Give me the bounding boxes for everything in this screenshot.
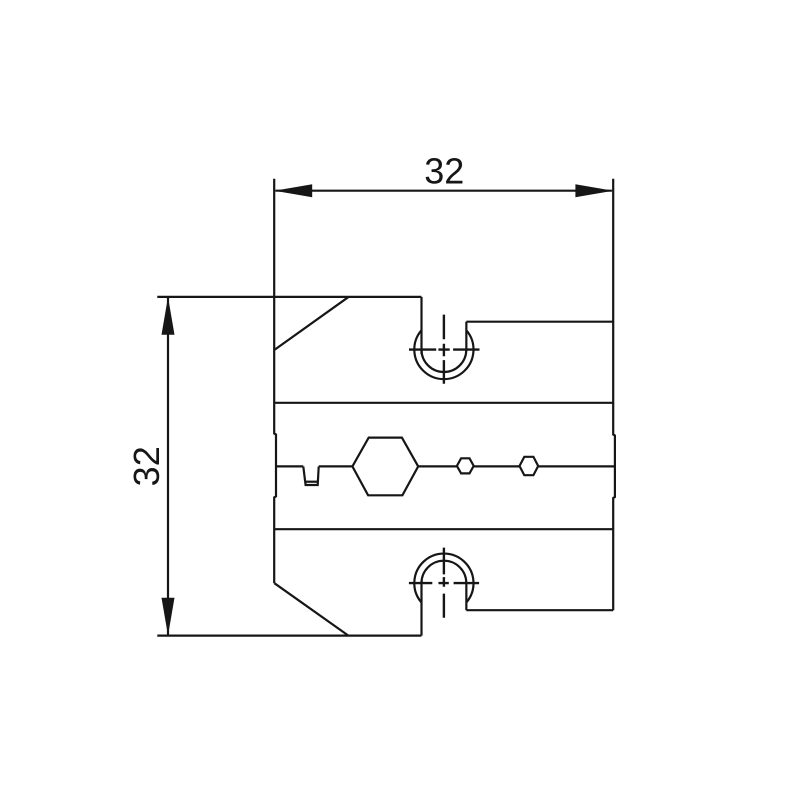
top hole centerline vertical: [443, 315, 445, 384]
svg-text:32: 32: [126, 446, 167, 486]
small hexagon cavity 2: [520, 457, 539, 475]
top slot right wall: [465, 322, 467, 350]
arrowhead top of left dimension: [162, 297, 175, 335]
arrowhead right of top dimension: [575, 184, 613, 197]
top hole outer arc r29.6: [414, 330, 473, 379]
bottom hole outer arc r29.6: [414, 554, 473, 603]
top hole centerline horizontal: [409, 348, 480, 350]
crimp notch seam line: [306, 481, 317, 483]
right extension + part right edge with relief jog: [613, 179, 615, 611]
part top-right edge: [466, 321, 613, 323]
chamfer diagonal top-left: [275, 297, 348, 349]
arrowhead left of top dimension: [274, 184, 312, 197]
bottom slot right wall: [465, 583, 467, 611]
profile center axis segment 3: [418, 465, 457, 467]
part bottom-right edge: [466, 609, 613, 611]
bottom slot left wall: [420, 581, 422, 636]
extension line / part top edge: [157, 296, 421, 298]
bottom hole inner semicircle r22.4: [422, 561, 467, 583]
bottom hole centerline vertical: [443, 548, 445, 618]
profile center axis segment 4: [474, 465, 520, 467]
groove top line of middle band: [274, 402, 613, 404]
large hexagon cavity: [352, 438, 418, 496]
dimension line horizontal 32 (top): [276, 190, 612, 192]
top hole inner semicircle r22.4: [422, 350, 467, 372]
profile center axis segment 1: [276, 465, 303, 467]
arrowhead bottom of left dimension: [162, 598, 175, 636]
top slot left wall: [420, 297, 422, 354]
profile center axis segment 5: [538, 465, 615, 467]
extension line / part bottom edge: [157, 634, 421, 636]
crimp notch (small slot with seam): [303, 467, 318, 486]
svg-text:32: 32: [424, 150, 464, 191]
profile center axis segment 2: [319, 465, 353, 467]
chamfer diagonal bottom-left: [274, 583, 348, 635]
small hexagon cavity 1: [457, 458, 474, 473]
left extension + part left edge with relief jog: [274, 179, 276, 584]
dimension line vertical 32 (left): [167, 298, 169, 635]
groove bottom line of middle band: [274, 528, 613, 530]
bottom hole centerline horizontal: [409, 582, 479, 584]
